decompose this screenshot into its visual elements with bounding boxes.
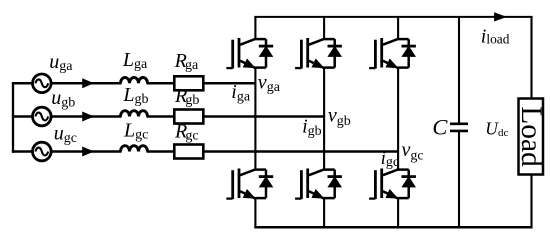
wire capacitor to bottom rail (458, 131, 460, 227)
wire load to bottom rail (530, 174, 532, 228)
phase a leg wire: upper IGBT to lower IGBT (node v_ga) (254, 67, 256, 169)
svg-text:Load: Load (515, 106, 547, 167)
wire resistor to bridge leg (node v_gb) (203, 115, 324, 118)
AC source u_ga (33, 74, 52, 93)
current arrow phase a (82, 78, 94, 88)
AC source u_gb (33, 107, 52, 126)
wire inductor to resistor phase b (147, 115, 176, 118)
phase a leg wire: top rail to upper IGBT (254, 17, 256, 39)
IGBT VT5 (369, 38, 398, 69)
IGBT VT4 (295, 169, 324, 200)
wire inductor to resistor phase a (147, 82, 176, 85)
IGBT VT2 (226, 169, 255, 200)
freewheeling diode of VT6 (398, 170, 416, 199)
phase c leg wire: lower IGBT to bottom rail (397, 198, 399, 228)
phase b leg wire: top rail to upper IGBT (323, 17, 325, 39)
inductor L_ga (121, 78, 148, 84)
bottom DC rail (negative bus) (254, 226, 532, 229)
phase b leg wire: upper IGBT to lower IGBT (node v_gb) (323, 67, 325, 169)
svg-text:C: C (432, 115, 448, 140)
wire top rail to load (530, 17, 532, 100)
resistor R_gb (174, 110, 203, 124)
wire source to inductor phase c (50, 150, 121, 153)
left AC bus wire (12, 82, 14, 153)
current arrow phase b (82, 112, 94, 122)
top DC rail (positive bus) (254, 16, 532, 18)
wire source to inductor phase a (50, 82, 121, 85)
wire top rail to capacitor (458, 17, 460, 124)
wire source to inductor phase b (50, 115, 121, 118)
resistor R_ga (174, 76, 203, 90)
IGBT VT6 (369, 169, 398, 200)
wire inductor to resistor phase c (147, 150, 176, 153)
wire resistor to bridge leg (node v_gc) (203, 150, 398, 153)
freewheeling diode of VT1 (255, 39, 273, 68)
resistor R_gc (174, 145, 203, 159)
phase a leg wire: lower IGBT to bottom rail (254, 198, 256, 228)
capacitor C (450, 124, 468, 131)
IGBT VT1 (226, 38, 255, 69)
freewheeling diode of VT3 (324, 39, 342, 68)
freewheeling diode of VT4 (324, 170, 342, 199)
wire bus to source phase c (12, 150, 34, 153)
IGBT VT3 (295, 38, 324, 69)
wire resistor to bridge leg (node v_ga) (203, 82, 255, 85)
AC source u_gc (33, 142, 52, 161)
inductor L_gc (121, 146, 148, 152)
phase c leg wire: top rail to upper IGBT (397, 17, 399, 39)
freewheeling diode of VT5 (398, 39, 416, 68)
wire bus to source phase a (12, 82, 34, 85)
wire bus to source phase b (12, 115, 34, 118)
phase c leg wire: upper IGBT to lower IGBT (node v_gc) (397, 67, 399, 169)
freewheeling diode of VT2 (255, 170, 273, 199)
current arrow phase c (82, 147, 94, 157)
inductor L_gb (121, 111, 148, 117)
load box (519, 99, 544, 175)
arrow i_load on top rail (494, 12, 507, 21)
phase b leg wire: lower IGBT to bottom rail (323, 198, 325, 228)
